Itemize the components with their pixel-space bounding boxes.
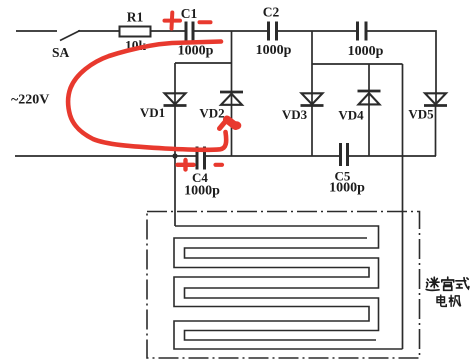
glyph mi — [426, 277, 439, 290]
wire switch to R1 — [78, 30, 120, 32]
wire lower rail left — [15, 155, 196, 157]
red arrowhead pointing up at VD2 bottom — [220, 120, 236, 129]
svg-text:R1: R1 — [127, 10, 144, 25]
electrode enclosure dash-dot box — [147, 212, 420, 359]
wire drop to VD1 — [174, 63, 176, 105]
wire VD3 bottom — [311, 106, 313, 156]
red annotation plus at C1 — [165, 13, 181, 29]
glyph ji — [449, 295, 460, 306]
svg-text:1000p: 1000p — [329, 181, 365, 196]
svg-text:C1: C1 — [181, 6, 198, 21]
wire VD4 bottom — [368, 105, 370, 156]
svg-text:1000p: 1000p — [184, 184, 220, 199]
red annotation stroke from C1 sweeping to arrow at VD2 — [68, 42, 226, 150]
capacitor C4 — [197, 147, 205, 170]
red annotation minus at C4 — [216, 163, 223, 167]
capacitor C3 — [358, 22, 367, 41]
switch SA — [60, 31, 80, 41]
wire right branch down to electrode — [402, 64, 404, 349]
wire node C2C3 drop to VD3 — [311, 31, 313, 105]
wire C3 to right corner down to VD5 — [367, 31, 437, 105]
resistor R1 — [120, 27, 151, 37]
svg-text:VD5: VD5 — [408, 107, 434, 122]
electrode A maze track (from VD1) — [175, 226, 379, 340]
svg-text:VD4: VD4 — [338, 108, 364, 123]
diode VD5 — [424, 93, 447, 105]
capacitor C5 — [341, 143, 348, 166]
glyph shi — [456, 278, 469, 289]
svg-text:C2: C2 — [263, 5, 280, 20]
wire VD2 bottom — [231, 105, 233, 156]
svg-text:1000p: 1000p — [256, 43, 292, 58]
diode VD3 — [301, 93, 324, 105]
wire C1 to C2 — [194, 30, 268, 32]
red annotation minus at C1 — [200, 20, 211, 24]
wire lower rail right — [349, 155, 437, 157]
capacitor C2 — [269, 22, 277, 41]
red arrowhead ink blob — [231, 121, 241, 129]
svg-text:VD1: VD1 — [140, 105, 165, 120]
diode VD1 — [164, 93, 187, 105]
svg-text:SA: SA — [52, 45, 70, 60]
wire drop to VD4 — [368, 64, 370, 104]
glyph dian — [437, 295, 446, 306]
wire mid horizontal left — [175, 62, 232, 64]
node junction dot VD1/rail — [172, 153, 177, 158]
svg-text:1000p: 1000p — [178, 44, 214, 59]
wire top-left AC input — [16, 30, 57, 32]
wire C2 to C3 — [278, 30, 358, 32]
diode VD2 — [220, 92, 243, 105]
wire VD5 bottom — [435, 106, 437, 156]
svg-text:VD2: VD2 — [199, 106, 224, 121]
wire R1 to C1 — [151, 30, 186, 32]
wire VD1 bottom to electrode — [174, 106, 176, 226]
glyph gong — [442, 277, 454, 290]
capacitor C1 — [186, 22, 193, 41]
diode VD4 — [358, 91, 381, 104]
svg-text:1000p: 1000p — [348, 44, 384, 59]
svg-text:~220V: ~220V — [11, 93, 49, 108]
wire lower rail middle — [206, 155, 340, 157]
electrode B maze track (from right branch) — [174, 238, 403, 349]
red annotation plus at C4 — [178, 160, 194, 170]
label maze electrode (Chinese) 迷宫式电极 — [426, 277, 469, 306]
wire mid horizontal right — [312, 63, 403, 65]
wire node C1C2 drop to VD2 — [231, 31, 233, 105]
svg-text:VD3: VD3 — [282, 107, 308, 122]
